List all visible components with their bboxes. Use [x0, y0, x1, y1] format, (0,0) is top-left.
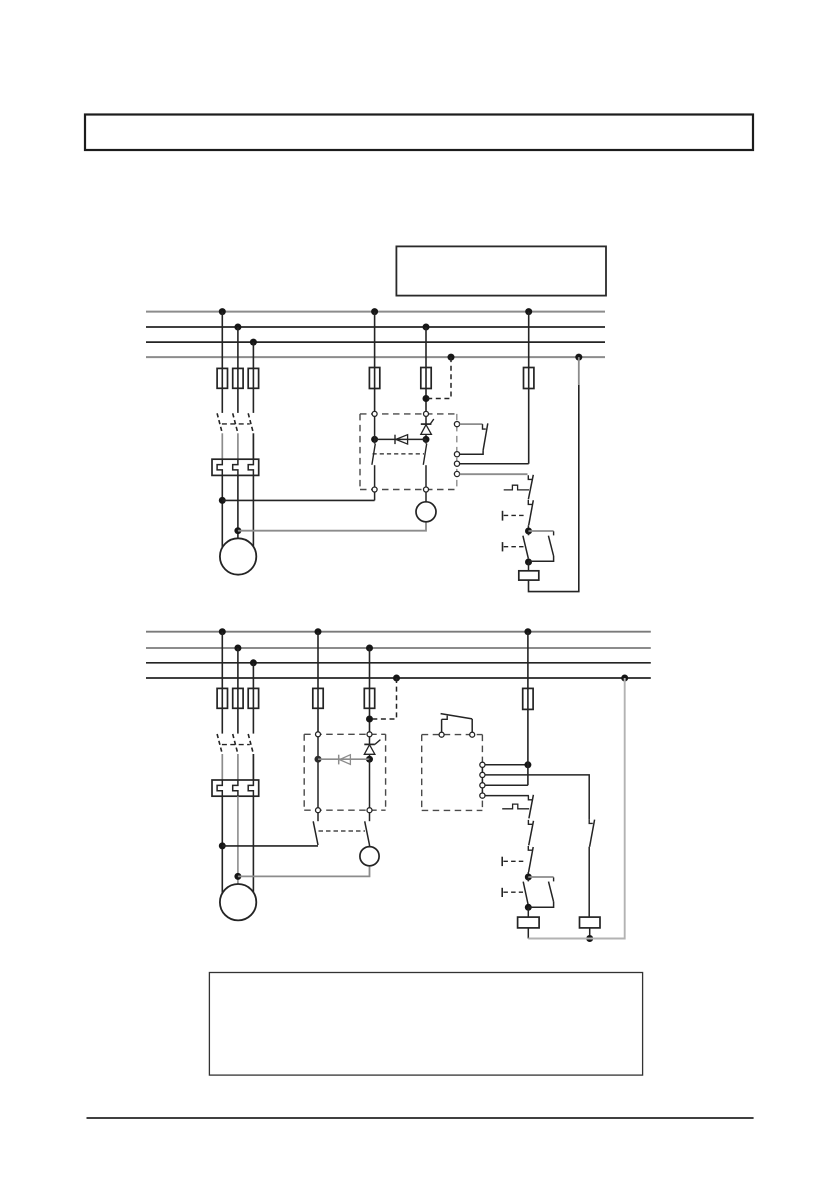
contact: limit switch NC (2): [502, 795, 533, 819]
terminal circles top of A3: [439, 732, 475, 737]
bottom note box (empty): [209, 973, 642, 1076]
node A2 chain: [525, 874, 532, 881]
module right-side terminal circles: [454, 422, 459, 477]
mechanical link in module: [373, 453, 425, 455]
contact K2 aux right (below module): [365, 813, 370, 845]
wire c4 to control chain (2): [485, 795, 529, 797]
wire below module left: [374, 492, 376, 500]
fuse F12: [233, 688, 243, 708]
wire c2 to interlock branch: [485, 775, 589, 820]
contact K1 sealing (NO, parallel): [529, 531, 554, 561]
wire to coil K3: [588, 847, 590, 917]
overload heater elements (2): [217, 780, 253, 796]
contact: module aux NO loop: [460, 423, 488, 454]
contactor K1 main contacts (3 poles): [217, 413, 253, 433]
fuse F1: [217, 368, 227, 388]
wire (grey) to lamp/coil bottom: [238, 522, 426, 531]
motor M2: [220, 884, 256, 920]
wire (grey) to coil circle bottom: [238, 866, 370, 877]
contact above A3 (NO): [441, 714, 473, 733]
node A1 chain: [525, 528, 532, 535]
wire solid between right terminals: [481, 763, 483, 799]
wire below contactor (2): [222, 754, 253, 780]
suppression module A2 (dashed box): [304, 734, 385, 810]
node B1 chain: [525, 559, 532, 566]
thermal overload relay F4: [212, 459, 259, 475]
contact: limit switch NC (with cam actuator): [504, 475, 534, 499]
wire (dashed) from bus N (2): [370, 678, 397, 719]
overload heater elements: [217, 459, 253, 475]
wire to coil circle: [369, 845, 371, 847]
wire drop from L1 to module: [374, 312, 376, 412]
bus L3: [146, 341, 605, 343]
node B2 chain: [525, 904, 532, 911]
wire coil return to N: [529, 385, 579, 592]
junction dots on buses: [219, 308, 583, 361]
fuse F11: [217, 688, 227, 708]
node: diode row right: [423, 436, 430, 443]
wire c3 to fuse drop: [460, 463, 529, 465]
bus L1: [146, 311, 605, 313]
pushbutton S4 start (NO): [502, 877, 528, 907]
wire phase drops to fuses (2): [222, 632, 253, 734]
wire drop from L1 through F7: [528, 312, 530, 464]
fuse F13: [248, 688, 258, 708]
node: dashed N tap joins drop (2): [366, 716, 373, 723]
lamp/coil H1: [416, 502, 436, 522]
contact K3 interlock NC in chain: [528, 820, 533, 846]
bus L2 (2): [146, 647, 651, 649]
wire overload to motor (2): [222, 796, 253, 893]
motor M1: [220, 538, 256, 574]
terminal circles right of A3: [480, 762, 485, 798]
wire c1 to fuse drop (2): [485, 764, 528, 766]
title box (empty): [85, 115, 753, 151]
wire c4 (grey) to control chain: [460, 473, 528, 475]
fuse F15: [313, 688, 323, 708]
node: motor line 1 tap: [219, 497, 226, 504]
contact K2 aux left (below module): [313, 813, 318, 845]
fuse F6: [421, 368, 431, 389]
wire below module right: [425, 492, 427, 502]
wire to coil K2: [527, 907, 529, 917]
wire (dashed) from bus N: [426, 357, 451, 398]
wire diode row (grey): [318, 758, 370, 760]
fuse F17: [523, 688, 533, 709]
bus L3 (2): [146, 662, 651, 664]
wire drop from L2 to module (2): [369, 648, 371, 732]
mechanical link below module: [319, 830, 366, 832]
wire c3 row (2): [485, 784, 528, 786]
node: diode row left: [371, 436, 378, 443]
contact K1 aux (left, in module): [372, 416, 375, 487]
wire phase drops to fuses: [222, 312, 253, 413]
contactor K2 main contacts (3 poles): [217, 734, 253, 754]
pushbutton S2 start (NO): [503, 531, 529, 562]
wire (grey) return upper part: [578, 357, 580, 385]
wire right vertical in A2: [369, 759, 371, 808]
fuse F2: [233, 368, 243, 388]
fuse F3: [248, 368, 258, 388]
wire drop from L2 to module: [425, 327, 427, 412]
wire diode row: [375, 438, 426, 440]
fuse F7: [524, 368, 534, 389]
terminal circles bottom of A1: [372, 487, 428, 492]
node: coils common: [586, 935, 593, 942]
wire to left contact bottom: [222, 845, 318, 847]
suppression module A1 (dashed box): [360, 414, 457, 490]
diode V1: [395, 435, 408, 444]
contactor K2 mechanical link: [222, 744, 250, 746]
wire (light grey) common return to N: [528, 678, 624, 939]
bus N (2): [146, 677, 651, 679]
contact K2 interlock NC: [589, 819, 594, 846]
terminal circles top of A2: [316, 732, 373, 737]
contact K1 aux (right, in module): [423, 439, 426, 487]
junction dots on buses (2): [219, 628, 628, 681]
coil K2: [518, 917, 540, 928]
wire coil K2 bottom: [527, 928, 529, 939]
contact K2 sealing (NO, parallel): [528, 877, 553, 907]
diode V3 (grey): [339, 755, 351, 765]
wire to module terminal (bottom left): [222, 499, 374, 501]
coil K3: [580, 917, 601, 928]
node on fuse drop (2): [524, 761, 531, 768]
pushbutton S3 stop (NC): [502, 846, 533, 877]
wire to coil: [528, 562, 530, 571]
relay module A3 (dashed box): [422, 735, 483, 811]
node: motor line 2 tap (2): [234, 873, 241, 880]
terminal circles bottom of A2: [316, 808, 373, 813]
node: motor line 1 tap (2): [219, 842, 226, 849]
terminal circles top of A1: [372, 411, 428, 416]
bus N: [146, 356, 605, 358]
fuse F5: [369, 368, 379, 389]
zener/suppressor V2: [421, 416, 434, 439]
node: diode row right (2): [366, 756, 373, 763]
wire left vertical in A2: [317, 737, 319, 808]
lamp/coil H2: [360, 847, 379, 866]
note box above diagram 1 (empty): [396, 246, 606, 295]
bus L2: [146, 326, 605, 328]
node: motor line 2 tap: [234, 527, 241, 534]
bus L1 (2): [146, 631, 651, 633]
thermal overload relay F14: [212, 780, 259, 796]
node: diode row left (2): [315, 756, 322, 763]
wire drop from L1 through F17: [527, 632, 529, 786]
coil K1: [519, 571, 539, 580]
footer rule: [87, 1117, 754, 1119]
fuse F16: [364, 688, 374, 708]
zener/suppressor V4: [364, 737, 380, 759]
pushbutton S1 stop (NC): [503, 500, 534, 531]
contactor K1 mechanical link: [222, 423, 250, 425]
wire drop from L1 to module (2): [317, 632, 319, 732]
wire below contactor: [222, 433, 253, 459]
node A: dashed N tap joins F6 drop: [423, 395, 430, 402]
wire overload to motor: [222, 475, 253, 547]
wire coil K3 to bottom: [589, 928, 591, 939]
